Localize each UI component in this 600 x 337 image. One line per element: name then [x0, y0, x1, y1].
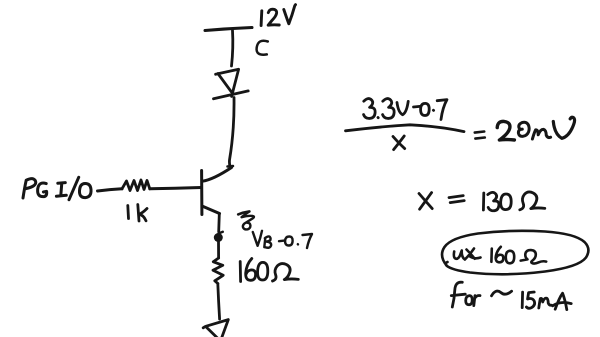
diode [214, 69, 249, 99]
annotation fraction bar [346, 125, 465, 132]
label C [257, 41, 268, 55]
ground [203, 320, 228, 337]
resistor 160 ohm [213, 258, 223, 284]
node PG I/O [23, 177, 91, 199]
wire emitter to junction [217, 214, 220, 232]
annotation circle use 160 ohm [442, 231, 588, 274]
wire 12V to diode [232, 31, 233, 67]
label 12V [261, 5, 295, 26]
power rail 12V [205, 28, 252, 31]
label 1k [128, 205, 147, 222]
wire PG I/O to resistor [98, 189, 123, 191]
wire resistor to base [150, 188, 201, 189]
annotation numerator 3.3V -0.7 [364, 99, 447, 120]
annotation x = 130 ohm [419, 192, 545, 211]
resistor 1k [122, 180, 150, 191]
annotation denominator x [393, 136, 405, 150]
junction node VB [214, 232, 223, 242]
label E emitter [238, 211, 254, 229]
annotation = 20mV [475, 117, 575, 140]
wire resistor to ground [218, 284, 220, 320]
transistor [202, 168, 232, 215]
annotation use 160 ohm text [454, 247, 546, 264]
label VB -0.7 [253, 231, 312, 248]
wire junction to resistor [217, 242, 220, 259]
wire diode to collector [228, 98, 235, 167]
annotation for ~ 15mA [451, 282, 571, 309]
label 160 ohm [240, 259, 298, 282]
